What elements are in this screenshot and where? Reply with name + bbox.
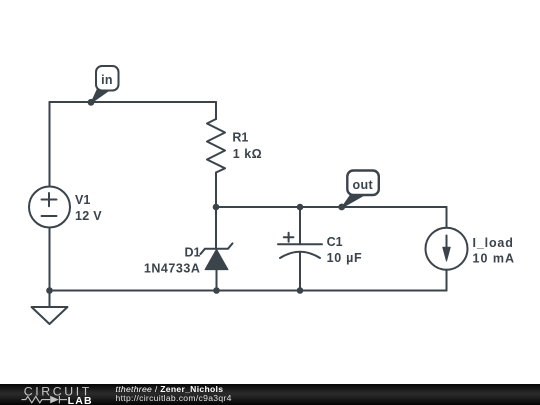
capacitor C1 top lead [299,207,301,244]
svg-text:12 V: 12 V [75,209,102,223]
wire bottom horizontal ground net [50,290,447,292]
wire current source top lead [446,207,448,228]
junction node ground/V1 [46,287,53,294]
footer bar [0,384,540,405]
wire zener bottom lead [216,270,218,291]
capacitor C1 bottom lead [299,252,301,291]
svg-text:V1: V1 [75,193,90,207]
zener diode D1 [201,243,233,254]
resistor R1 [207,119,225,173]
capacitor C1 [278,243,322,245]
svg-text:1N4733A: 1N4733A [144,262,201,276]
junction node C1 top [297,204,304,211]
ground [49,291,51,308]
wire zener top lead [215,207,217,249]
svg-text:D1: D1 [185,246,201,260]
svg-text:out: out [352,178,373,192]
svg-text:10 µF: 10 µF [327,251,363,265]
svg-text:C1: C1 [327,235,343,249]
svg-text:in: in [101,73,113,87]
junction node D1 bottom [213,287,220,294]
wire top horizontal in-net [50,101,217,103]
wire resistor top lead [215,102,217,119]
current source I_load [426,228,468,270]
svg-text:R1: R1 [232,131,248,145]
wire middle horizontal out-net [216,206,447,208]
footer text [116,385,232,404]
svg-text:1 kΩ: 1 kΩ [233,147,262,161]
voltage source V1 [29,187,70,228]
node out callout [338,171,378,211]
node in callout [88,66,119,106]
wire current source bottom lead [446,270,448,291]
wire left vertical to V1 top [49,102,51,187]
svg-text:I_load: I_load [473,236,514,250]
junction node C1 bottom [297,287,304,294]
CircuitLab logo [0,384,110,405]
wire V1 bottom to ground node [49,228,51,291]
svg-text:LAB: LAB [68,395,93,405]
junction node R1/D1/out [213,204,220,211]
svg-text:10 mA: 10 mA [473,252,516,266]
wire resistor bottom lead [215,173,217,208]
